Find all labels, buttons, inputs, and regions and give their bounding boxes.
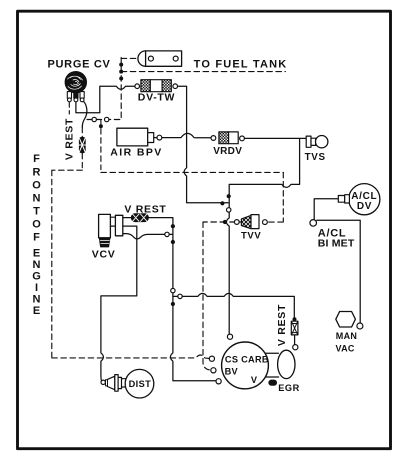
svg-text:PURGE CV: PURGE CV [48, 58, 111, 70]
port: carb top [227, 334, 232, 339]
svg-text:E: E [33, 305, 40, 317]
wire: VCV collar lower port s-curve to trunk [123, 234, 173, 239]
V REST valve (purge line) [79, 137, 86, 153]
svg-text:G: G [32, 271, 41, 283]
V REST valve (VCV line, horizontal) [131, 213, 149, 222]
svg-text:V REST: V REST [124, 203, 166, 215]
svg-text:V REST: V REST [64, 118, 76, 160]
dashed hose: TVV junction to carb BV port [203, 222, 226, 370]
junction dots [99, 63, 231, 307]
port: MAN VAC [357, 323, 363, 329]
junction: TVV branch on carb trunk [223, 220, 227, 224]
dashed hose: header drop to lower dashed run [101, 120, 283, 173]
port: EGR top [293, 345, 298, 350]
MAN VAC fitting [336, 312, 356, 328]
distributor [106, 369, 154, 398]
port: VRDV left [211, 136, 216, 141]
port: TVV left [234, 220, 239, 225]
wire: VCV top port through V REST valve to vertical trunk [123, 218, 216, 381]
port: carb CS [209, 356, 214, 361]
port: distributor [101, 380, 105, 384]
dashed hose: vapor line to canister [121, 57, 137, 59]
svg-text:I: I [35, 282, 38, 294]
wire: purge CV right leg curved drop to V REST valve [82, 100, 87, 127]
svg-text:V REST: V REST [276, 304, 288, 346]
svg-text:O: O [32, 180, 41, 192]
junction: TVS line on carb trunk [227, 194, 231, 198]
VRDV valve [211, 132, 244, 144]
wire: DV-TW right port down to junction with TVS line [175, 86, 228, 203]
connector: EGR branch inline [178, 294, 182, 298]
wire: TVV left port tap [230, 221, 242, 223]
junction: purge header drop [99, 124, 103, 128]
svg-text:V: V [251, 375, 258, 385]
svg-text:AIR BPV: AIR BPV [110, 146, 162, 158]
wire: AIR BPV to VRDV to TVS [162, 133, 306, 138]
junction: DV-TW line tee [220, 201, 224, 205]
svg-text:BI MET: BI MET [318, 238, 355, 250]
port: AIR BPV outlet [157, 135, 162, 140]
port: TVV right [263, 220, 268, 225]
connector: VCV lower hose [165, 232, 169, 236]
svg-text:F: F [33, 232, 40, 244]
TVV valve [241, 215, 259, 229]
connector circles [92, 84, 363, 385]
dashed hose: canister drop line [120, 58, 122, 120]
port: DV-TW right [173, 84, 178, 89]
svg-text:TVS: TVS [305, 152, 326, 163]
dashed hose: purge port header [87, 119, 121, 121]
junction: VCV trunk upper [171, 224, 175, 228]
dashed hose: down to TVV right port [267, 172, 283, 222]
svg-text:VAC: VAC [336, 343, 355, 353]
svg-text:VCV: VCV [92, 249, 116, 261]
DV-TW valve [141, 80, 171, 92]
dashed hose: purge V REST valve run around front of engine to carb CS port [52, 127, 210, 358]
EGR valve body [268, 350, 295, 386]
wire: purge CV middle leg to DV-TW left port [76, 86, 135, 113]
svg-text:CS CARB: CS CARB [225, 354, 269, 364]
junction: canister drop line upper [119, 63, 123, 67]
port: A/CL BI MET [310, 220, 317, 227]
port: carb lower left [216, 379, 221, 384]
wire: bimet to MAN VAC [317, 220, 360, 323]
AIR BPV body [117, 128, 157, 146]
port: carb BV [211, 368, 216, 373]
wire: VCV to distributor via lower-left route [101, 226, 137, 381]
svg-text:N: N [33, 193, 41, 205]
svg-text:O: O [32, 219, 41, 231]
svg-text:T: T [33, 206, 40, 218]
svg-text:DV-TW: DV-TW [138, 91, 175, 103]
canister [138, 51, 182, 66]
wire: trunk branch to EGR V REST valve [173, 293, 295, 344]
svg-text:TO FUEL TANK: TO FUEL TANK [194, 59, 288, 71]
V REST valve (EGR line, vertical) [291, 317, 298, 335]
junction: fuel tank line tee [119, 70, 123, 74]
svg-text:BV: BV [225, 366, 239, 376]
wire: TVS down, left, then down to carburetor top port [226, 139, 299, 334]
junction: VCV trunk mid [171, 240, 175, 244]
junction: canister drop line lower [119, 77, 123, 81]
port: VRDV right [240, 136, 245, 141]
svg-text:MAN: MAN [336, 331, 357, 341]
svg-text:N: N [33, 259, 41, 271]
TVS switch [306, 136, 328, 148]
carburetor body [222, 342, 269, 389]
port: purge header right [105, 117, 109, 121]
VCV body [99, 214, 123, 247]
label FRONT OF ENGINE [32, 153, 41, 317]
dashed hose: purge left leg stub [68, 102, 70, 114]
connector: carb trunk inline [227, 208, 231, 212]
junction: EGR branch tee [171, 302, 175, 306]
svg-text:DIST: DIST [129, 379, 152, 389]
svg-text:F: F [33, 153, 40, 165]
svg-text:N: N [33, 294, 41, 306]
svg-text:TVV: TVV [241, 230, 261, 241]
wire: A/CL DV to bimet sensor [314, 199, 338, 220]
port: purge header left [92, 117, 96, 121]
connector: VCV trunk inline [171, 288, 175, 292]
purge CV body [65, 72, 86, 102]
svg-text:R: R [33, 166, 41, 178]
A/CL DV motor [338, 184, 380, 215]
svg-text:VRDV: VRDV [213, 146, 242, 157]
wire: carb to EGR neck lines [265, 353, 279, 377]
svg-text:E: E [33, 248, 40, 260]
dashed hose: to fuel tank line [121, 71, 285, 73]
port: DV-TW left [135, 84, 140, 89]
svg-text:EGR: EGR [278, 383, 299, 393]
svg-text:DV: DV [357, 201, 372, 212]
